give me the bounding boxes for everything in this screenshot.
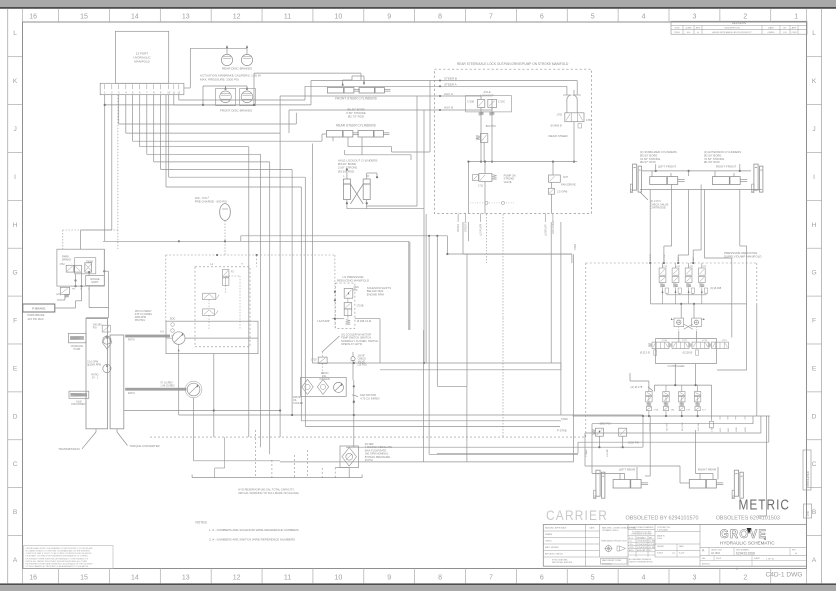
wire bus y254.2 right (447, 253, 572, 255)
brake B1 rear disc left (221, 54, 232, 65)
wire port10 run y177.2 (168, 95, 170, 178)
svg-text:VALVE: VALVE (504, 180, 512, 184)
svg-text:AXLE: AXLE (76, 400, 82, 403)
svg-text:SUPPLY/DUMP MANIFOLD: SUPPLY/DUMP MANIFOLD (724, 255, 762, 259)
wire port12 steer feed B (178, 95, 180, 100)
svg-text:RATIO: RATIO (128, 339, 135, 342)
svg-text:STEER B: STEER B (444, 76, 457, 80)
wire dashed manifold top bus (586, 262, 757, 264)
svg-text:1 OF 10: 1 OF 10 (766, 559, 775, 561)
valve SV4 fan drive 1157 (549, 175, 561, 182)
svg-text:REAR DISC BRAKES: REAR DISC BRAKES (222, 67, 252, 71)
svg-text:RIGHT REAR: RIGHT REAR (698, 468, 717, 472)
svg-text:COOLER: COOLER (320, 378, 330, 381)
svg-text:D: D (812, 413, 817, 420)
svg-text:CARTRIDGE: CARTRIDGE (650, 206, 666, 210)
wire lockout valves to bus (480, 107, 482, 161)
svg-text:STEER A: STEER A (444, 82, 457, 86)
cylinder CY11 left rear jack (596, 470, 600, 496)
valve SV2 1713C axle lockout (488, 99, 497, 107)
wire middle crossing verticals (409, 242, 411, 330)
wire bottom bus y447.2 (346, 446, 590, 448)
cylinder CY14 right rear extension (689, 480, 716, 489)
wire nested corners to left (591, 424, 593, 474)
svg-text:RET: RET (693, 256, 695, 261)
wire cylinders to reducing manifold (649, 190, 651, 264)
svg-text:DESCRIPTION: DESCRIPTION (725, 28, 740, 30)
svg-text:1 PLACE DEC.: 1 PLACE DEC. (637, 540, 649, 543)
junction dots park brake (74, 279, 76, 281)
cylinder CY1 front steer left (327, 88, 354, 94)
svg-text:C4D-1 DWG: C4D-1 DWG (766, 571, 803, 578)
svg-text:UNPUBLISHED WORK. THIS DRAWING: UNPUBLISHED WORK. THIS DRAWING IS THE PR… (26, 547, 94, 550)
svg-text:1713C: 1713C (498, 100, 505, 103)
manifold MV1 13-port hydraulic manifold (115, 31, 168, 83)
svg-text:0.5 MM: 0.5 MM (649, 541, 655, 543)
svg-text:6294101568: 6294101568 (736, 552, 755, 556)
svg-text:9: 9 (387, 14, 391, 21)
orifice rects in valve drops (665, 288, 668, 293)
svg-text:2: 2 (743, 14, 747, 21)
svg-text:TANK: TANK (561, 417, 568, 421)
wire stab bottom bus (640, 189, 762, 191)
title block center section (654, 525, 656, 558)
stamp obsoleted box right edge (803, 450, 811, 490)
svg-text:PSI: PSI (354, 289, 358, 292)
title block material section (655, 531, 700, 533)
cylinder CY9 left front extension (650, 177, 678, 185)
wire MV2 to lower bus 2 (468, 222, 470, 241)
svg-text:LS-PMP: LS-PMP (607, 448, 609, 457)
svg-text:AUX B: AUX B (444, 106, 453, 110)
svg-text:12: 12 (233, 14, 241, 21)
check valve 1/8 NF (351, 357, 355, 361)
svg-text:4: 4 (642, 14, 646, 21)
valve RV5 2320 psi reducing (344, 289, 353, 299)
svg-text:REAR STEER CYLINDERS: REAR STEER CYLINDERS (336, 124, 376, 128)
wire port10b drop (165, 95, 167, 187)
pump P3 main piston pump (172, 332, 185, 345)
svg-text:ENGINE RPM: ENGINE RPM (367, 292, 385, 296)
wire LS lines (332, 318, 344, 320)
wire port1 to park brake group (104, 95, 106, 242)
svg-text:FAN DRIVE: FAN DRIVE (552, 221, 555, 234)
svg-text:CONDITION THAT IT IS NOT TO BE: CONDITION THAT IT IS NOT TO BE COPIED OR… (26, 552, 93, 555)
svg-text:REL.: REL. (702, 558, 706, 560)
svg-text:DRAWN: DRAWN (545, 533, 553, 536)
svg-text:8-4-94: 8-4-94 (679, 553, 684, 555)
svg-text:030894: 030894 (768, 32, 776, 34)
strainer charging pump (68, 333, 86, 342)
svg-text:B: B (13, 509, 18, 516)
svg-text:H: H (812, 222, 817, 229)
svg-text:A-S: A-S (160, 331, 164, 334)
svg-text:9: 9 (387, 575, 391, 582)
check valves rear steer pilots (567, 95, 572, 100)
svg-text:H: H (13, 222, 18, 229)
svg-text:1. # - NUMBERS ARE SOLENOID W: 1. # - NUMBERS ARE SOLENOID WIRE REFEREN… (209, 528, 299, 532)
svg-text:15: 15 (80, 14, 88, 21)
svg-text:SYM: SYM (675, 28, 680, 30)
valve SV9 rear outrigger 1718 (646, 392, 652, 396)
wire port6 run y146.7 (139, 95, 141, 147)
svg-text:F: F (13, 318, 17, 325)
svg-text:29616: 29616 (674, 32, 680, 34)
svg-text:FAN MOTOR: FAN MOTOR (360, 393, 376, 397)
diamond symbol (102, 336, 112, 350)
wire accumulator stem (224, 221, 226, 242)
svg-text:1740: 1740 (662, 340, 668, 342)
valve SV11 rear outrigger 153 (679, 392, 685, 396)
svg-text:1=1: 1=1 (672, 553, 675, 555)
svg-text:U.S.A.: U.S.A. (657, 537, 663, 540)
cylinder CY2 front steer right (359, 88, 384, 94)
svg-text:RATIO: RATIO (128, 392, 135, 395)
svg-text:@2000 RPM: @2000 RPM (87, 363, 101, 366)
pump P2 transmission main (103, 364, 111, 372)
svg-text:3: 3 (692, 575, 696, 582)
svg-text:3 PLACE DEC.: 3 PLACE DEC. (637, 546, 649, 549)
svg-text:AUX A: AUX A (444, 92, 453, 96)
svg-text:7: 7 (489, 14, 493, 21)
svg-text:365 PSIG: 365 PSIG (135, 319, 146, 322)
svg-text:MANIFOLD: MANIFOLD (134, 59, 150, 63)
svg-text:OR IN PART, OR USED FOR FURNIS: OR IN PART, OR USED FOR FURNISHING INFOR… (26, 555, 89, 558)
svg-text:5: 5 (591, 14, 595, 21)
svg-text:4: 4 (642, 575, 646, 582)
svg-text:A: A (13, 557, 18, 564)
svg-text:1747: 1747 (682, 340, 688, 342)
svg-text:(4) Ø.038: (4) Ø.038 (710, 286, 722, 290)
hose to charge pump (125, 388, 186, 391)
wire dashed pilot line from manifold (117, 95, 119, 249)
svg-text:MAKE SIMILAR TO/WAS: MAKE SIMILAR TO/WAS (602, 559, 622, 562)
wire port4 run y133 (125, 95, 127, 133)
brake B3 front disc left (216, 88, 236, 105)
svg-text:800 PSI: 800 PSI (486, 124, 496, 128)
svg-text:REAR STEER: REAR STEER (549, 134, 569, 138)
wire dashed pump controls (225, 285, 227, 293)
svg-text:A6 1594: A6 1594 (711, 552, 721, 555)
cylinder CY3 rear steer left (326, 131, 353, 138)
pump group outer box (166, 321, 258, 353)
svg-text:HYD RESERVOIR (60 GAL TOTAL CA: HYD RESERVOIR (60 GAL TOTAL CAPACITY, (238, 488, 295, 492)
svg-text:2: 2 (743, 575, 747, 582)
wire port5 run y141 (132, 95, 134, 142)
valve SV17 1725 (203, 309, 215, 316)
svg-text:Ø.0405 Ø: Ø.0405 Ø (551, 124, 562, 128)
svg-text:2000 PSI: 2000 PSI (628, 441, 639, 445)
wire p-stab dashed bus (150, 436, 586, 438)
wire fan drive down (550, 222, 552, 363)
svg-text:1: 1 (794, 14, 798, 21)
svg-text:215 PSI MAX: 215 PSI MAX (28, 317, 44, 321)
pump P3 case drain arrows (178, 344, 180, 353)
svg-text:ST RET: ST RET (664, 253, 666, 261)
wire MV2 to lower bus 1 (462, 222, 464, 254)
svg-text:OBSOLETES 6294101503: OBSOLETES 6294101503 (716, 515, 780, 521)
svg-text:PUMP: PUMP (74, 349, 81, 351)
svg-text:ST EXT: ST EXT (650, 253, 652, 261)
svg-text:1715B: 1715B (467, 100, 474, 103)
svg-text:(15 PSI): (15 PSI) (358, 363, 367, 366)
svg-text:WEIGHT: WEIGHT (657, 546, 665, 548)
svg-text:TRANSMISSION: TRANSMISSION (58, 447, 79, 451)
outrigger group box (656, 338, 717, 340)
svg-text:DATE: DATE (679, 545, 684, 548)
svg-text:6: 6 (540, 575, 544, 582)
svg-text:METRIC: METRIC (739, 498, 791, 514)
valve SV12 rear outrigger 177 (694, 392, 700, 396)
svg-text:.97 : 1: .97 : 1 (91, 377, 98, 380)
svg-text:MATL. REVIEW: MATL. REVIEW (545, 546, 559, 549)
svg-text:LTR: LTR (806, 511, 810, 516)
wire front brake feed (202, 86, 204, 105)
svg-text:.X ±: .X ± (629, 541, 632, 543)
wire MV2 dashed pilots down (486, 214, 488, 263)
component small gauge (710, 421, 714, 428)
motor M1 fan motor (334, 382, 344, 392)
svg-text:SLR: SLR (728, 427, 730, 432)
svg-text:GROVE. ALL PATENT RIGHTS AND D: GROVE. ALL PATENT RIGHTS AND DESIGN RIGH… (26, 560, 88, 563)
svg-text:RLQ SW: RLQ SW (682, 421, 684, 431)
svg-text:12: 12 (233, 575, 241, 582)
wire aux A run (295, 123, 297, 125)
svg-text:(LS-PUMP): (LS-PUMP) (479, 224, 482, 236)
svg-text:SCALE: SCALE (657, 552, 664, 555)
svg-text:PRE-CHARGE - 600 PSI: PRE-CHARGE - 600 PSI (195, 200, 227, 204)
manifold MV1 port bar (100, 83, 184, 94)
svg-text:CARRIER: CARRIER (546, 508, 608, 523)
wire port7 run y154.3 (146, 95, 148, 155)
svg-text:238 GAL WORKING TO FULL MARK O: 238 GAL WORKING TO FULL MARK ON GAUGE) (238, 491, 299, 495)
svg-text:I: I (14, 174, 16, 181)
cylinder CY8 right front stabilizer jack (754, 164, 758, 190)
svg-text:OTHERWISE SPECIFIED: OTHERWISE SPECIFIED (631, 534, 653, 536)
cylinder CY6 axle lockout right (363, 179, 370, 200)
wire mid horizontal y386.3 (437, 385, 467, 387)
title block size dwg row (700, 555, 807, 557)
inner pilot box (75, 258, 96, 274)
filter F1 housing (340, 446, 358, 468)
wire main bus y241.3 (103, 240, 409, 242)
wire bottom bus y454.3 (429, 453, 578, 455)
pump P1 transmission charging (103, 336, 111, 344)
valve RV4 regulator (102, 325, 110, 332)
svg-text:L SO: L SO (712, 427, 714, 432)
svg-text:LLO: LLO (720, 428, 722, 432)
svg-text:PARK BRAKE: PARK BRAKE (28, 313, 45, 317)
svg-text:0.5°: 0.5° (649, 550, 652, 552)
valve SV18 1723B (344, 303, 352, 309)
revision block (671, 21, 807, 34)
svg-text:FRONT DISC BRAKES: FRONT DISC BRAKES (220, 109, 252, 113)
pump P4 charge pump gerotor (187, 383, 200, 396)
svg-text:J: J (13, 126, 16, 133)
svg-text:1778: 1778 (662, 266, 668, 268)
svg-text:FRONT STEER CYLINDERS: FRONT STEER CYLINDERS (335, 97, 377, 101)
wire hose connections (124, 410, 280, 412)
svg-text:RANGE: RANGE (90, 277, 99, 281)
svg-text:Ø.313 Ø: Ø.313 Ø (640, 351, 650, 355)
manifold MV2 bottom pigtails (457, 214, 459, 223)
svg-text:OR FOR ANY OTHER PURPOSE DETRI: OR FOR ANY OTHER PURPOSE DETRIMENTAL TO … (26, 557, 89, 560)
svg-text:DATE: DATE (768, 27, 774, 30)
svg-text:TORQUE CONVERTER: TORQUE CONVERTER (129, 444, 159, 448)
svg-text:(4) Ø.178: (4) Ø.178 (631, 385, 643, 389)
svg-text:D: D (13, 413, 18, 420)
wire bottom bus y461.9 (280, 461, 573, 463)
svg-text:EDC: EDC (170, 318, 175, 321)
svg-text:CHARGING: CHARGING (71, 345, 84, 348)
svg-text:CHECK: CHECK (545, 541, 552, 543)
svg-text:ALL MACHINED SURFACES: ALL MACHINED SURFACES (629, 558, 652, 561)
svg-text:1776: 1776 (702, 340, 708, 342)
cylinder CY13 left rear extension (613, 480, 641, 489)
valve RV1 relief 800psi (480, 134, 487, 143)
svg-text:LEFT REAR: LEFT REAR (619, 468, 636, 472)
svg-text:4.75 CU IN/REV: 4.75 CU IN/REV (360, 396, 380, 400)
svg-text:REV: REV (696, 28, 701, 30)
svg-text:PROP: PROP (716, 558, 722, 560)
svg-text:1742: 1742 (675, 266, 681, 268)
park brake group box (57, 249, 104, 286)
svg-text:PSI: PSI (93, 327, 97, 330)
svg-text:L: L (13, 30, 17, 37)
svg-text:C: C (13, 461, 18, 468)
svg-text:LJG: LJG (783, 32, 787, 34)
svg-text:ADDED NOTE ANNULLED BY 6294101: ADDED NOTE ANNULLED BY 6294101577 (712, 31, 752, 34)
wire axle lockout cross (350, 184, 363, 204)
svg-text:G: G (811, 270, 816, 277)
shuttle crossover pair (674, 318, 684, 327)
svg-text:X = ±: X = ± (629, 537, 633, 539)
svg-text:APP (ELEC / MECH): APP (ELEC / MECH) (545, 553, 563, 556)
wire dashed bus y255 (166, 254, 257, 256)
svg-text:E: E (13, 365, 18, 372)
cylinder CY4 rear steer right (358, 131, 383, 138)
svg-text:0.1 MM: 0.1 MM (649, 547, 655, 549)
wire aux B run (289, 109, 434, 111)
cylinder CY12 right rear jack (734, 470, 738, 496)
svg-text:1779: 1779 (701, 266, 707, 268)
proprietary note block (24, 546, 114, 569)
svg-text:ULTIMATELY BUILD: ULTIMATELY BUILD (602, 529, 619, 532)
svg-text:PROPRIETARY RIGHTS ARE RESERVE: PROPRIETARY RIGHTS ARE RESERVED. ACCEPTA… (26, 563, 94, 566)
cylinder CY5 axle lockout left (343, 179, 350, 200)
svg-text:LH3 SW: LH3 SW (698, 422, 700, 431)
svg-text:HYDRAULIC SCHEMATIC: HYDRAULIC SCHEMATIC (720, 540, 775, 545)
svg-text:G: G (13, 270, 18, 277)
title block pattern number (601, 559, 628, 565)
svg-text:10: 10 (334, 14, 342, 21)
wire lockout cylinder feeds (346, 170, 348, 180)
svg-text:DATE: DATE (590, 527, 596, 530)
wire lockout to manifold (347, 208, 424, 210)
strainer axle disconnect (69, 391, 89, 398)
svg-text:COOLER: COOLER (293, 402, 303, 405)
wire fan drive connections (552, 162, 554, 175)
svg-text:OBSOLETED: OBSOLETED (806, 471, 810, 487)
range shift box (86, 276, 105, 286)
svg-text:REPORT ALL ERRORS.: REPORT ALL ERRORS. (552, 561, 573, 564)
wire rear steer links (332, 137, 334, 141)
spring LS manifold (346, 320, 351, 326)
svg-text:REDUCING MANIFOLD: REDUCING MANIFOLD (337, 279, 370, 283)
svg-text:Ø.228 Ø: Ø.228 Ø (683, 351, 693, 355)
valve RV3 relief 2000 (619, 428, 627, 436)
svg-text:1779: 1779 (722, 340, 728, 342)
svg-text:REVISIONS: REVISIONS (732, 21, 746, 25)
svg-text:35 PSI: 35 PSI (365, 458, 373, 462)
svg-text:P-STAB: P-STAB (557, 428, 567, 432)
svg-text:RIGHT FRONT: RIGHT FRONT (716, 165, 737, 169)
svg-text:A0/1594: A0/1594 (702, 563, 710, 566)
svg-text:J: J (812, 126, 815, 133)
wire bus y235.8 (241, 235, 448, 237)
svg-text:8: 8 (438, 14, 442, 21)
svg-text:DISCONNECT: DISCONNECT (71, 404, 87, 406)
svg-text:OUTRIGGER: OUTRIGGER (668, 364, 685, 368)
svg-text:DECIMALS: DECIMALS (637, 536, 647, 539)
wire right side verticals to rear cylinders (752, 416, 754, 424)
wire tank bus (561, 414, 643, 416)
wire steer lines inside manifold (573, 90, 575, 95)
svg-text:Ø2.75" ROD: Ø2.75" ROD (348, 115, 364, 119)
valve SV1 1715B axle lockout (466, 96, 512, 112)
svg-text:LS-PUMP: LS-PUMP (317, 319, 330, 323)
wire brake label to cluster (55, 307, 76, 309)
svg-text:1723B: 1723B (357, 305, 364, 308)
brake B2 rear disc right (241, 54, 252, 65)
svg-text:R: R (367, 174, 369, 178)
svg-text:1782: 1782 (557, 114, 563, 117)
valve RV2 relief 3800 (595, 428, 603, 436)
svg-text:14: 14 (131, 14, 139, 21)
cooler core diamonds (302, 379, 313, 394)
valve SV3 pump on stroke (479, 174, 492, 182)
svg-text:P-BRAKE: P-BRAKE (32, 307, 45, 311)
hose transmission to pump (125, 335, 170, 338)
svg-text:C: C (812, 461, 817, 468)
wire relief cluster connections (598, 436, 600, 447)
svg-text:K: K (812, 78, 817, 85)
svg-text:L: L (812, 30, 816, 37)
svg-text:SLO WT: SLO WT (666, 422, 668, 431)
svg-text:1762: 1762 (60, 264, 66, 266)
pump group dashed box (195, 267, 250, 347)
svg-text:K: K (13, 78, 18, 85)
svg-text:I: I (813, 174, 815, 181)
svg-text:5: 5 (591, 575, 595, 582)
wire reducing bus y303.9 (651, 303, 747, 305)
svg-text:Ø2.97" ROD: Ø2.97" ROD (640, 160, 656, 164)
service brake label box (23, 304, 55, 312)
wire port9 run y169.5 (160, 95, 162, 170)
cylinder CY10 right front extension (712, 177, 740, 185)
svg-text:14: 14 (131, 575, 139, 582)
svg-text:APP: APP (792, 27, 797, 30)
svg-text:NOTES:: NOTES: (196, 520, 208, 524)
wire outrigger drops (674, 364, 676, 373)
wire crossover feeds (680, 304, 682, 318)
wire port8 run y161.9 (153, 95, 155, 162)
svg-text:13: 13 (182, 14, 190, 21)
third angle projection symbol (606, 546, 612, 552)
svg-text:T-TANK: T-TANK (585, 449, 588, 457)
svg-text:.XX ±: .XX ± (629, 544, 633, 546)
svg-text:CWR: CWR (792, 32, 797, 34)
